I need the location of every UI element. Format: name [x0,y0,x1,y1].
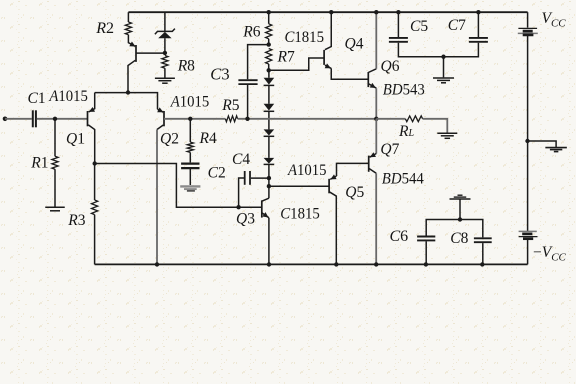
resistor R1 [52,156,58,169]
label Vcc [542,10,567,30]
transistor Q5 base bar [328,179,330,194]
wire R5 to output node [238,118,377,120]
node Q7 collector at rail [374,262,378,266]
svg-text:R1: R1 [30,155,48,172]
label Q2 [160,131,179,148]
wire top supply rail (+Vcc) [128,11,527,13]
node bottom ground tap [458,217,462,221]
node C6 at rail [424,262,428,266]
label R6 [242,23,260,40]
wire -Vcc battery to rail corner [527,239,529,264]
transistor Q3 collector [262,198,269,201]
label Q4 [345,36,364,53]
label R7 [277,49,295,66]
node Q4 collector at rail [329,10,333,14]
svg-text:Q7: Q7 [380,141,399,158]
wire ground stem bottom [459,199,461,219]
node C5 at rail [396,10,400,14]
wire C6 to rail [425,241,427,264]
label A1015 for Q5 [287,162,327,179]
svg-text:Q4: Q4 [345,36,364,53]
wire rail corner to Vcc battery [527,12,529,27]
transistor Q4 base bar [323,50,325,65]
node Q3 emitter at rail [267,262,271,266]
transistor Q2 collector [157,125,163,264]
resistor R2 [125,22,131,35]
label C1815 for Q3 [280,206,320,223]
wire C4 to node E [251,177,269,179]
node C (R6/R7/C3) [267,42,271,46]
label Q1 [66,131,85,148]
wire D1 to D2 [268,85,270,103]
node C8 at rail [480,262,484,266]
wire C1 to node A [37,118,88,120]
svg-text:R5: R5 [221,97,239,114]
svg-text:R2: R2 [95,20,114,37]
wire node D to D1 [268,70,270,78]
capacitor C7 [469,38,488,42]
label C1 [28,90,46,107]
transistor Q4 base wire [269,58,324,70]
node R4 tap [188,117,192,121]
svg-text:C1: C1 [28,90,46,107]
svg-text:BD543: BD543 [383,82,425,99]
ground below C5/C7 [433,78,454,83]
node Q3 base junction [236,205,240,209]
wire C6 to C8 tops [426,220,483,238]
transistor Q7 base wire [337,163,369,176]
ground below R1 [45,207,65,211]
transistor Q7 emitter [370,119,377,157]
wire RL to ground [423,119,448,133]
node F (Q5 base tap) [267,184,271,188]
wire R1 to ground [54,169,56,207]
zener diode cathode bar [155,29,175,35]
transistor Q2 base bar [163,111,165,126]
svg-text:Q5: Q5 [345,184,364,201]
capacitor C2 [181,164,199,169]
diode D1 [264,78,275,86]
transistor Q-current-source collector [128,60,135,92]
svg-text:Q2: Q2 [160,131,179,148]
node output [374,117,378,121]
diode D2 [264,104,275,112]
svg-text:Q1: Q1 [66,131,85,148]
node supply midpoint [525,139,529,143]
transistor Q5 collector [329,192,336,265]
svg-text:R6: R6 [242,23,260,40]
wire rail to R2 [127,12,129,22]
label R8 [177,57,195,74]
node B (zener/R8/base) [163,51,167,55]
wire rail to C5 [397,12,399,37]
transistor Q1 base bar [87,111,89,126]
svg-text:A1015: A1015 [48,88,88,105]
ground below RL [437,133,457,138]
diode D4 [264,158,275,165]
svg-text:Q6: Q6 [381,58,400,75]
label R5 [221,97,239,114]
svg-text:C1815: C1815 [285,29,325,46]
svg-text:R4: R4 [199,130,217,147]
transistor Q-current-source bar [135,45,137,62]
label Q7 [380,141,399,158]
label R1 [30,155,48,172]
resistor R6 [266,24,272,39]
label C6 [390,228,409,245]
wire node C to C3 [248,45,269,80]
wire R8 to ground [164,68,166,78]
label C5 [410,18,428,35]
transistor Q5 base wire [269,185,329,187]
capacitor C8 [474,238,492,242]
label C4 [232,151,250,168]
diode D3 [264,129,275,136]
label R4 [199,130,217,147]
transistor Q5 emitter [330,174,336,179]
wire C8 to rail [482,243,484,264]
resistor R8 [162,56,168,69]
label C1815 for Q4 [285,29,325,46]
node Q6 collector at rail [374,10,378,14]
capacitor C4 [245,171,250,185]
wire R6 to node C [268,39,270,45]
transistor Q-current-source base wire [136,52,165,54]
svg-text:C7: C7 [448,17,466,34]
node top ground tap [441,55,445,59]
transistor Q3 emitter [262,212,269,264]
transistor Q2 emitter [157,107,163,112]
wire R4 to C2 [189,152,191,162]
label C8 [450,230,468,247]
node C3 tap on feedback line [245,117,249,121]
wire R3 column [94,164,96,265]
label C2 [208,164,226,181]
svg-text:C2: C2 [208,164,226,181]
svg-text:C5: C5 [410,18,428,35]
resistor R3 [92,200,98,215]
label C7 [448,17,466,34]
svg-text:C4: C4 [232,151,250,168]
wire C3 to feedback node [247,85,249,119]
label A1015 for Q2 [170,94,210,111]
svg-text:BD544: BD544 [382,170,424,187]
node C7 at rail [476,10,480,14]
wire rail to C7 [477,12,479,37]
label R2 [95,20,114,37]
transistor Q6 collector [368,12,376,72]
transistor Q-current-source emitter [128,35,135,47]
wire output to RL [376,118,405,120]
node input terminal [3,117,8,122]
zener diode triangle [158,32,171,38]
transistor Q1 collector [88,125,94,164]
svg-text:R8: R8 [177,57,195,74]
label Q6 [381,58,400,75]
wire differential tail [95,93,158,110]
wire bottom supply rail (-Vcc) [95,263,528,265]
node A (Q1 base / R1) [53,117,57,121]
transistor Q3 base wire [239,206,262,208]
ground below R8 [155,78,175,83]
wire rail to zener [164,12,166,31]
label Q5 [345,184,364,201]
resistor R7 [266,49,272,65]
label -Vcc [533,244,567,264]
node Q5 collector at rail [334,262,338,266]
transistor Q1 emitter [89,93,95,112]
svg-text:A1015: A1015 [170,94,210,111]
node tail junction [126,90,130,94]
wire C2 to ground [189,169,191,185]
capacitor C5 [389,38,408,42]
transistor Q6 emitter [368,83,376,119]
capacitor C6 [417,237,435,241]
transistor Q4 collector [325,12,331,50]
wire node A to R1 [54,119,56,157]
resistor R4 [187,142,193,152]
wire node F to Q3 collector [268,186,270,198]
svg-text:Q3: Q3 [236,211,255,228]
wire input to C1 [5,118,32,120]
svg-text:R7: R7 [277,49,295,66]
wire midpoint to ground [528,141,557,147]
wire ground stem top [443,57,445,78]
node Q2 collector at rail [155,262,159,266]
svg-text:C3: C3 [210,65,229,84]
transistor Q7 base bar [368,156,370,172]
wire Q2 base to R5 [164,118,225,120]
wire rail to R6 [268,12,270,24]
label R3 [67,212,85,229]
wire R4 tap to R4 [189,119,191,142]
ground below C2 (gray) [180,186,200,191]
transistor Q7 collector [369,168,377,264]
battery -Vcc [519,231,538,238]
capacitor C1 [33,110,36,127]
svg-text:A1015: A1015 [287,162,327,179]
transistor Q4 emitter [325,63,332,68]
wire Q3 base node to C4 [239,178,244,207]
node D (R7/diodes/Q4 base) [267,68,271,72]
node E (C4 tap) [267,176,271,180]
wire node E to node F [268,178,270,186]
wire D2 to D3 [268,111,270,129]
label BD543 for Q6 [383,82,425,99]
svg-text:C8: C8 [450,230,468,247]
label BD544 for Q7 [382,170,424,187]
wire C5 to C7 bottoms [398,43,478,57]
wire Q4 emitter to Q6 base [331,68,368,79]
wire Q1 collector to Q3 base [95,164,239,208]
resistor R5 [225,116,237,122]
wire R7 to node D [268,64,270,70]
ground supply midpoint [545,148,567,152]
wire D3 to D4 [268,136,270,158]
svg-text:C6: C6 [390,228,409,245]
label Q3 [236,211,255,228]
resistor RL [405,116,422,122]
node Q1 collector junction [93,161,97,165]
ground above C6/C8 (inverted) [450,195,471,199]
wire zener to node B [164,38,166,53]
node R6 at rail [267,10,271,14]
transistor Q6 base bar [367,72,369,87]
label C3 [210,65,229,84]
label RL [398,123,414,140]
transistor Q3 base bar [261,200,263,217]
capacitor C3 [238,80,257,84]
svg-text:C1815: C1815 [280,206,320,223]
battery Vcc [518,28,538,35]
wire D4 to node E [268,164,270,178]
wire Vcc battery to midpoint [527,35,529,231]
svg-text:R3: R3 [67,212,85,229]
label A1015 for Q1 [48,88,88,105]
